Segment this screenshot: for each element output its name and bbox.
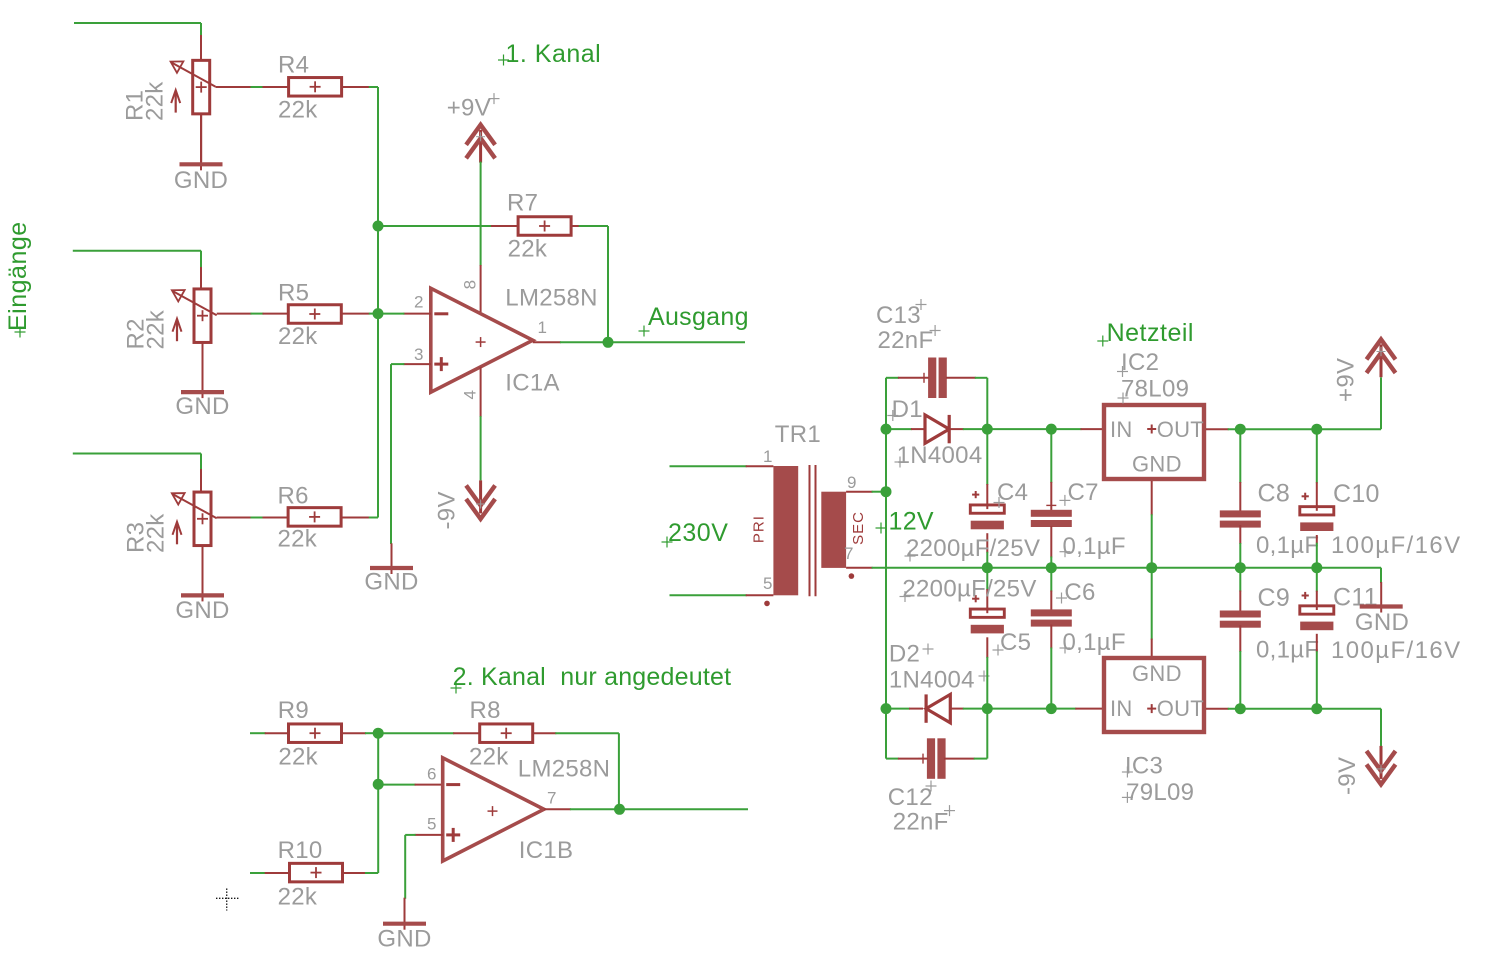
svg-text:22k: 22k xyxy=(469,743,509,770)
pin wire R7 right xyxy=(571,225,579,227)
wire C9 top xyxy=(1239,568,1241,592)
wire 230V bottom xyxy=(670,594,747,596)
origin cross of C4 value xyxy=(905,551,916,562)
junction C10 / rail xyxy=(1311,562,1322,573)
origin cross of 1. Kanal xyxy=(498,55,509,66)
junction D1 anode xyxy=(881,424,892,435)
pin wire C12 right xyxy=(944,758,975,760)
wire R2 tap to R5 xyxy=(251,313,264,315)
svg-text:C7: C7 xyxy=(1068,479,1099,506)
svg-text:IN: IN xyxy=(1110,696,1133,721)
junction C8 / rail xyxy=(1235,562,1246,573)
pin wire C8 top xyxy=(1239,482,1241,512)
pin wire R6 left xyxy=(263,517,289,519)
capacitor C11 xyxy=(1300,592,1334,630)
svg-text:5: 5 xyxy=(427,815,436,834)
svg-text:78L09: 78L09 xyxy=(1121,376,1189,403)
svg-text:IN: IN xyxy=(1110,417,1133,442)
svg-text:22k: 22k xyxy=(143,309,170,349)
svg-text:100µF/16V: 100µF/16V xyxy=(1331,637,1462,664)
pin wire C5 top xyxy=(986,589,988,609)
origin cross of IC2 label xyxy=(1117,366,1128,377)
svg-text:22k: 22k xyxy=(141,81,168,121)
potentiometer R1 xyxy=(171,60,216,114)
wire to D1 anode xyxy=(886,428,912,430)
wire IC2 GND to rail xyxy=(1151,514,1153,567)
wire to D2 cathode xyxy=(886,708,910,710)
svg-text:1: 1 xyxy=(538,318,547,337)
junction TR1 pin 9 xyxy=(881,486,892,497)
voltage regulator IC2 xyxy=(1104,405,1204,479)
pin wire C5 bottom xyxy=(986,637,988,658)
resistor R9 xyxy=(289,724,342,743)
svg-text:1. Kanal: 1. Kanal xyxy=(506,40,602,68)
origin cross of C7 label xyxy=(1059,495,1070,506)
svg-text:LM258N: LM258N xyxy=(518,756,611,783)
origin cross of C7 part xyxy=(1046,500,1056,510)
pin wire R10 right xyxy=(344,872,366,874)
svg-text:R4: R4 xyxy=(278,51,309,78)
svg-text:GND: GND xyxy=(175,597,229,624)
pin wire R8 right xyxy=(532,732,556,734)
origin cross of C12 part xyxy=(918,754,928,764)
op-amp IC1A xyxy=(431,288,533,392)
wire R1 tap to R4 xyxy=(251,86,264,88)
wire C8 top xyxy=(1239,429,1241,483)
resistor R5 xyxy=(288,305,341,324)
wire C4 top xyxy=(986,429,988,485)
pin wire R1 tap xyxy=(215,86,251,88)
wire C13 to D1 cathode xyxy=(975,378,988,429)
op-amp IC1B xyxy=(443,758,544,861)
svg-text:5: 5 xyxy=(763,574,772,593)
pin wire 4 of IC1A xyxy=(480,367,482,417)
svg-text:C5: C5 xyxy=(1000,629,1031,656)
origin cross of C4 label xyxy=(994,497,1005,508)
wire -9V line xyxy=(1228,709,1381,747)
pin wire R5 right xyxy=(342,313,370,315)
wire C8 to rail xyxy=(1239,543,1241,568)
ground at IC1B pin 5 xyxy=(383,898,426,930)
pin wire C7 bottom xyxy=(1050,526,1052,558)
svg-text:22k: 22k xyxy=(278,884,318,911)
wire +9V line xyxy=(1228,377,1381,429)
pin wire R3 top xyxy=(200,469,202,492)
pin wire R2 bottom xyxy=(202,343,204,391)
origin cross of IC3 label xyxy=(1122,767,1133,778)
svg-text:C9: C9 xyxy=(1258,584,1291,612)
wire pin 5 to ground xyxy=(405,835,415,899)
svg-text:6: 6 xyxy=(427,765,436,784)
polarity dot TR1 primary xyxy=(764,601,770,607)
origin cross of 22nF label xyxy=(930,325,941,336)
wire 230V top xyxy=(670,465,747,467)
svg-text:22k: 22k xyxy=(278,743,318,770)
svg-text:C13: C13 xyxy=(876,302,921,329)
pin wire D1 cathode xyxy=(951,428,964,430)
pin wire R1 bottom xyxy=(200,114,202,162)
svg-text:IC1B: IC1B xyxy=(519,837,574,864)
wire C11 top xyxy=(1316,568,1318,592)
origin cross of 1N4004 label xyxy=(895,457,906,468)
svg-text:22k: 22k xyxy=(143,513,170,553)
svg-text:2. Kanal nur angedeutet: 2. Kanal nur angedeutet xyxy=(453,663,732,691)
svg-text:22nF: 22nF xyxy=(878,327,934,354)
wire R7 to output xyxy=(579,226,608,342)
pin wire D2 anode xyxy=(950,708,964,710)
svg-text:2: 2 xyxy=(414,293,423,312)
ground under R1 xyxy=(180,114,223,171)
ground at IC1A pin 3 xyxy=(370,543,413,574)
svg-text:D2: D2 xyxy=(889,641,920,668)
wire Ausgang xyxy=(608,341,745,343)
svg-text:R5: R5 xyxy=(278,279,309,306)
pin wire 6 of IC1B xyxy=(415,784,443,786)
pin wire C9 bottom xyxy=(1239,625,1241,652)
capacitor C13 xyxy=(928,358,947,399)
pin wire R2 tap xyxy=(217,313,252,315)
pin wire D2 cathode xyxy=(909,708,923,710)
origin cross of 230V xyxy=(662,537,673,548)
wire pin 9 to 12V node xyxy=(872,491,886,493)
svg-text:-9V: -9V xyxy=(1334,757,1361,795)
capacitor C5 xyxy=(970,595,1004,633)
junction R9/R8 xyxy=(373,728,384,739)
wire output channel 2 xyxy=(620,808,749,810)
svg-text:IC3: IC3 xyxy=(1125,753,1163,780)
capacitor C7 xyxy=(1031,510,1072,527)
svg-text:D1: D1 xyxy=(892,396,923,423)
svg-text:2200µF/25V: 2200µF/25V xyxy=(906,535,1040,562)
svg-text:79L09: 79L09 xyxy=(1126,779,1194,806)
origin cross at +9V output arrow xyxy=(1377,347,1386,356)
junction summing bus / pin 2 xyxy=(373,308,384,319)
origin cross of IC3 part xyxy=(1147,704,1156,713)
wire C9 to -9V line xyxy=(1239,651,1241,709)
wire input 2 xyxy=(73,251,201,268)
svg-text:GND: GND xyxy=(377,926,431,953)
pin wire R8 left xyxy=(453,732,480,734)
svg-text:GND: GND xyxy=(1132,452,1182,477)
pin wire TR1 pin 7 xyxy=(846,567,873,569)
pin wire C11 top xyxy=(1316,591,1318,606)
wire C12 to D2 anode xyxy=(974,709,988,759)
capacitor C6 xyxy=(1031,609,1072,626)
svg-text:7: 7 xyxy=(844,544,853,563)
wire 12V vertical xyxy=(886,378,899,759)
ground under R2 xyxy=(181,343,224,399)
svg-text:OUT: OUT xyxy=(1157,417,1204,442)
svg-text:LM258N: LM258N xyxy=(505,285,598,312)
pin wire IC3 IN xyxy=(1075,708,1102,710)
wire D2 to IC3 IN xyxy=(963,708,1077,710)
origin cross of Ausgang xyxy=(639,326,650,337)
origin cross at +9V arrow xyxy=(476,132,485,141)
pin wire TR1 pin 1 xyxy=(746,465,774,467)
junction output IC1B xyxy=(614,804,625,815)
pin wire C8 bottom xyxy=(1239,525,1241,544)
junction bus / pin 6 xyxy=(373,779,384,790)
svg-text:GND: GND xyxy=(364,569,418,596)
wire pin 3 to ground xyxy=(391,364,404,544)
pin wire IC2 OUT xyxy=(1206,428,1229,430)
svg-text:4: 4 xyxy=(461,390,480,399)
svg-text:+9V: +9V xyxy=(1333,358,1360,402)
junction C5 bottom xyxy=(982,703,993,714)
origin cross of C5 label xyxy=(993,645,1004,656)
pin wire R6 right xyxy=(341,517,369,519)
svg-text:R8: R8 xyxy=(470,697,501,724)
wire C6 to D2 line xyxy=(1050,648,1052,709)
svg-text:22k: 22k xyxy=(508,235,548,262)
junction IC GND / rail xyxy=(1146,562,1157,573)
svg-text:230V: 230V xyxy=(668,519,728,547)
pin wire R1 top xyxy=(200,35,202,61)
svg-text:22nF: 22nF xyxy=(893,809,949,836)
capacitor C4 xyxy=(970,491,1004,529)
origin cross at -9V arrow xyxy=(476,500,485,509)
svg-text:12V: 12V xyxy=(889,508,934,536)
origin cross of C13 label xyxy=(916,299,927,310)
wire R8 feedback xyxy=(555,733,619,809)
origin cross of 79L09 label xyxy=(1122,792,1133,803)
wire C7 top xyxy=(1050,429,1052,483)
pin wire IC2 IN xyxy=(1081,428,1103,430)
pin wire C10 bottom xyxy=(1316,535,1318,544)
svg-text:3: 3 xyxy=(414,345,423,364)
capacitor C8 xyxy=(1220,510,1261,527)
junction summing bus / feedback xyxy=(373,221,384,232)
cursor crosshair xyxy=(216,889,239,911)
-9V supply arrow (output) xyxy=(1367,746,1396,785)
origin cross of C12 label xyxy=(926,781,937,792)
resistor R8 xyxy=(480,724,533,743)
pin wire C6 bottom xyxy=(1050,625,1052,649)
polarity dot TR1 secondary xyxy=(849,573,855,579)
svg-text:GND: GND xyxy=(174,167,228,194)
svg-text:8: 8 xyxy=(461,280,480,289)
pin wire 2 of IC1A xyxy=(403,313,431,315)
capacitor C10 xyxy=(1300,493,1334,531)
resistor R7 xyxy=(518,217,571,236)
pin wire R9 left xyxy=(265,732,289,734)
junction C6 bottom xyxy=(1046,703,1057,714)
origin cross of C5 value xyxy=(900,591,911,602)
pin wire R4 left xyxy=(263,86,289,88)
+9V supply arrow (IC1A) xyxy=(466,125,495,163)
pin wire C11 bottom xyxy=(1316,634,1318,652)
pin wire C12 left xyxy=(898,758,929,760)
svg-text:1N4004: 1N4004 xyxy=(889,667,975,694)
pin wire R10 left xyxy=(265,872,288,874)
pin wire TR1 pin 9 xyxy=(846,491,873,493)
svg-text:1: 1 xyxy=(763,447,772,466)
-9V supply arrow (IC1A) xyxy=(466,480,495,519)
svg-text:PRI: PRI xyxy=(751,515,768,543)
svg-text:2200µF/25V: 2200µF/25V xyxy=(902,576,1036,603)
svg-text:R7: R7 xyxy=(507,189,538,216)
resistor R4 xyxy=(289,78,342,97)
svg-text:OUT: OUT xyxy=(1157,696,1204,721)
pin wire C13 right xyxy=(946,377,976,379)
svg-text:C12: C12 xyxy=(888,784,933,811)
origin cross of 12V xyxy=(876,523,887,534)
pin wire IC3 GND xyxy=(1151,639,1153,656)
svg-text:GND: GND xyxy=(1355,609,1409,636)
pin wire TR1 pin 5 xyxy=(746,594,774,596)
capacitor C9 xyxy=(1220,611,1261,628)
origin cross of C13 part xyxy=(919,373,929,383)
pin wire 5 of IC1B xyxy=(415,834,443,836)
origin cross of C6 value xyxy=(1060,643,1071,654)
origin cross of Netzteil xyxy=(1097,336,1108,347)
pin wire 7 of IC1B xyxy=(544,808,571,810)
svg-text:R6: R6 xyxy=(278,482,309,509)
pin wire C9 top xyxy=(1239,591,1241,613)
resistor R10 xyxy=(290,863,343,882)
potentiometer R3 xyxy=(172,492,217,546)
wire R5 out to bus xyxy=(369,313,378,315)
origin cross of D2 value label xyxy=(979,671,990,682)
wire input R10 xyxy=(250,872,266,874)
svg-text:22k: 22k xyxy=(278,525,318,552)
svg-text:R10: R10 xyxy=(278,837,323,864)
svg-text:Netzteil: Netzteil xyxy=(1107,319,1194,347)
origin cross of D2 label xyxy=(923,644,934,655)
ground under R3 xyxy=(181,546,224,602)
svg-text:C6: C6 xyxy=(1064,579,1095,606)
pin wire C13 left xyxy=(898,377,929,379)
svg-text:0,1µF: 0,1µF xyxy=(1256,637,1319,664)
pin wire IC2 GND xyxy=(1151,481,1153,515)
wire output of IC1A xyxy=(560,341,608,343)
junction C11 bottom xyxy=(1311,703,1322,714)
origin cross at -9V output arrow xyxy=(1377,764,1386,773)
origin cross of 78L09 label xyxy=(1118,393,1129,404)
wire input 3 xyxy=(73,454,201,471)
junction C7 / rail xyxy=(1046,562,1057,573)
origin cross of C7 value xyxy=(1060,546,1071,557)
resistor R6 xyxy=(288,508,341,527)
wire rail to IC3 GND xyxy=(1151,568,1153,640)
origin cross of C6 label xyxy=(1056,593,1067,604)
pin wire C10 top xyxy=(1316,482,1318,506)
svg-text:GND: GND xyxy=(1132,661,1182,686)
svg-text:22k: 22k xyxy=(278,96,318,123)
pin wire C4 top xyxy=(986,484,988,505)
junction C4 / rail xyxy=(982,562,993,573)
wire +9V to pin 8 xyxy=(480,162,482,266)
svg-text:TR1: TR1 xyxy=(775,421,821,448)
wire bus to pin 6 xyxy=(378,784,415,786)
junction C10 top xyxy=(1311,424,1322,435)
svg-text:SEC: SEC xyxy=(850,511,867,545)
origin cross of Eingänge xyxy=(15,327,26,338)
svg-text:7: 7 xyxy=(547,789,556,808)
wire D1 to IC2 IN xyxy=(963,428,1082,430)
wire C6 top xyxy=(1050,568,1052,592)
wire 12V top corner xyxy=(886,377,899,379)
svg-text:Eingänge: Eingänge xyxy=(4,221,32,331)
transformer TR1 xyxy=(773,465,846,596)
origin cross of 2. Kanal xyxy=(451,683,462,694)
wire R3 tap to R6 xyxy=(251,517,264,519)
wire output of IC1B xyxy=(570,808,620,810)
wire C11 to -9V line xyxy=(1316,651,1318,709)
svg-text:C10: C10 xyxy=(1333,480,1380,508)
pin wire R9 right xyxy=(342,732,366,734)
svg-text:22k: 22k xyxy=(278,323,318,350)
wire secondary rail xyxy=(872,568,1381,583)
svg-text:0,1µF: 0,1µF xyxy=(1063,533,1126,560)
diode D1 xyxy=(925,415,949,443)
wire C4 to rail xyxy=(986,552,988,568)
origin cross of IC2 part xyxy=(1147,425,1156,434)
junction C9 bottom xyxy=(1235,703,1246,714)
ground of secondary rail xyxy=(1360,582,1403,613)
origin cross of D1 label xyxy=(887,410,898,421)
svg-text:0,1µF: 0,1µF xyxy=(1063,629,1126,656)
svg-text:IC1A: IC1A xyxy=(505,369,560,396)
junction output IC1A xyxy=(603,337,614,348)
wire input R9 xyxy=(250,732,266,734)
pin wire R4 right xyxy=(342,86,370,88)
pin wire C6 top xyxy=(1050,591,1052,613)
diode D2 xyxy=(926,694,950,722)
wire summing bus vertical xyxy=(369,87,378,518)
pin wire C4 bottom xyxy=(986,533,988,553)
pin wire R2 top xyxy=(200,267,202,289)
wire C10 to rail xyxy=(1316,543,1318,568)
pin wire R3 bottom xyxy=(202,546,204,594)
pin wire C7 top xyxy=(1050,482,1052,511)
wire C7 to rail xyxy=(1050,557,1052,568)
wire input 1 xyxy=(74,23,201,36)
svg-text:GND: GND xyxy=(175,393,229,420)
svg-text:0,1µF: 0,1µF xyxy=(1256,532,1319,559)
wire R8 input xyxy=(378,732,454,734)
wire R9 to junction xyxy=(365,732,378,734)
wire R10 to bus xyxy=(365,733,378,873)
origin cross of C12 value label xyxy=(944,805,955,816)
wire C10 top xyxy=(1316,429,1318,483)
svg-text:-9V: -9V xyxy=(434,491,461,529)
pin wire 8 of IC1A xyxy=(480,265,482,312)
wire bus to pin 2 xyxy=(378,313,404,315)
capacitor C12 xyxy=(927,738,946,779)
pin wire IC3 OUT xyxy=(1206,708,1229,710)
pin wire R7 left xyxy=(491,225,518,227)
svg-text:C8: C8 xyxy=(1258,480,1291,508)
wire pin 4 to -9V xyxy=(480,416,482,480)
junction C4 top xyxy=(982,424,993,435)
svg-text:100µF/16V: 100µF/16V xyxy=(1331,532,1462,559)
svg-text:R9: R9 xyxy=(278,697,309,724)
voltage regulator IC3 xyxy=(1104,658,1204,732)
pin wire 1 of IC1A xyxy=(533,341,561,343)
wire C5 to D2 line xyxy=(986,657,988,709)
origin cross of +9V label xyxy=(489,93,500,104)
junction D2 cathode xyxy=(881,703,892,714)
junction C7 top xyxy=(1046,424,1057,435)
potentiometer R2 xyxy=(172,289,217,343)
wire C5 top xyxy=(986,568,988,590)
svg-text:+9V: +9V xyxy=(447,95,491,122)
svg-text:9: 9 xyxy=(847,473,856,492)
pin wire R5 left xyxy=(263,313,289,315)
+9V supply arrow (output) xyxy=(1367,339,1396,377)
junction C8 top xyxy=(1235,424,1246,435)
